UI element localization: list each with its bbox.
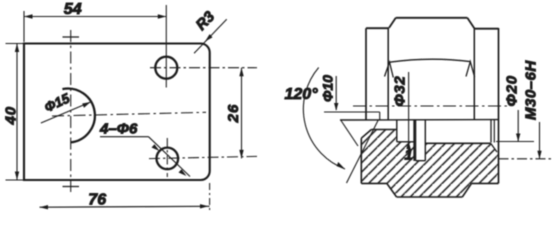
hex chamfer slant left	[389, 18, 396, 28]
main horizontal centerline	[353, 105, 510, 107]
phi20 extension line	[496, 141, 534, 143]
boss hole bottom	[416, 160, 426, 162]
housing bottom slant left	[387, 183, 397, 197]
dimension 40 line	[16, 44, 18, 181]
phi10 arrow	[334, 103, 338, 111]
shank left edge	[396, 120, 398, 142]
phi20 dimension line	[517, 110, 519, 141]
svg-text:Φ20: Φ20	[504, 75, 521, 106]
phi15 centerline top tick	[63, 36, 80, 38]
housing chamfer corner left	[361, 130, 371, 139]
R3 leader line	[194, 19, 227, 53]
shank bottom left segment	[397, 141, 416, 143]
svg-text:M30–6H: M30–6H	[523, 60, 540, 120]
M30-6H arrow	[537, 151, 541, 159]
shank right edge	[490, 120, 492, 143]
4-phi6 leader arrowhead at hole	[152, 144, 160, 151]
left view plate outline	[24, 44, 210, 181]
housing bottom ledge left	[361, 182, 387, 184]
housing top surface left	[371, 129, 396, 131]
hex shoulder top right	[475, 28, 499, 30]
chamfer note 1 leader stem	[408, 145, 410, 152]
shank bottom right segment (thread line)	[425, 142, 490, 144]
4-phi6 leader second arrowhead	[179, 169, 187, 176]
hex corner edge right	[473, 29, 475, 120]
phi20 arrow	[516, 134, 520, 142]
120deg angle side line A	[341, 121, 358, 147]
4-phi6 underline	[100, 136, 149, 138]
housing bottom edge	[397, 196, 463, 198]
phi32 dimension line	[408, 72, 410, 148]
boss hole right edge	[424, 120, 426, 161]
thread end inner vertical	[493, 120, 495, 143]
phi15 leader arrow	[82, 102, 90, 108]
phi10 hole end wall	[379, 112, 381, 120]
hex shoulder top left	[366, 27, 389, 29]
dimension 76 extension right (dash-dot)	[209, 183, 211, 211]
dimension 76 arrows	[40, 204, 209, 209]
svg-text:Φ10: Φ10	[320, 75, 336, 102]
120deg angle side line B	[347, 120, 379, 184]
svg-text:4–Φ6: 4–Φ6	[99, 121, 138, 138]
phi32 arrows	[407, 141, 411, 149]
svg-text:Φ32: Φ32	[392, 76, 409, 107]
hex chamfer slant right	[467, 18, 475, 29]
housing section hatch	[361, 130, 498, 198]
top edge extension line (left)	[6, 43, 25, 45]
hex corner edge left	[387, 28, 389, 120]
svg-text:R3: R3	[193, 8, 219, 34]
phi10 dimension line	[335, 76, 337, 110]
hole H1 top (phi6)	[155, 57, 177, 79]
120deg arc end arrow	[337, 162, 345, 169]
svg-text:26: 26	[225, 104, 242, 124]
dimension 26 line	[241, 68, 243, 159]
thread end chamfer slant	[491, 143, 497, 152]
phi10 hole upper extension line	[324, 111, 380, 113]
dimension 76 line	[40, 205, 210, 208]
flange bottom (washer face)	[340, 119, 499, 121]
dimension 40 arrows	[15, 44, 19, 181]
dimension 54 line	[24, 16, 166, 18]
hole H2 bottom (phi6)	[157, 148, 179, 170]
hex chamfer arc across face	[390, 59, 471, 62]
dimension 54 arrows	[24, 14, 166, 18]
M30-6H extension line (dash-dot)	[499, 158, 554, 160]
bottom edge extension line (left)	[6, 179, 25, 181]
dimension 26 arrows	[239, 68, 243, 159]
dimension 54 extension line left	[23, 11, 25, 42]
svg-text:40: 40	[2, 106, 19, 126]
hole H1 horizontal centerline / 26 extension	[150, 67, 257, 69]
chamfer note 1 leader arrow	[406, 142, 410, 149]
hex corner chamfer V left	[385, 62, 394, 77]
svg-text:54: 54	[64, 1, 82, 18]
right silhouette edge (hex + housing)	[498, 28, 500, 183]
svg-text:120°: 120°	[285, 86, 319, 103]
svg-text:1: 1	[405, 147, 413, 164]
M30-6H dimension line	[539, 122, 541, 159]
hex head top edge	[396, 17, 468, 19]
housing bottom ledge right	[472, 182, 499, 184]
boss hole left edge	[413, 120, 416, 161]
hole H1 vertical centerline / 54 extension	[165, 5, 167, 88]
hex left silhouette edge	[365, 28, 367, 120]
hole H2 horizontal centerline / 26 extension	[149, 156, 257, 158]
phi15 leader line	[41, 102, 91, 123]
phi15 centerline bottom tick	[63, 186, 80, 188]
4-phi6 leader line through bottom hole	[149, 137, 191, 177]
phi15 vertical centerline	[70, 30, 72, 192]
120deg dimension arc	[303, 68, 345, 170]
R3 leader arrowhead	[205, 34, 213, 41]
hole H2 vertical centerline	[166, 138, 168, 177]
housing bottom slant right	[462, 183, 471, 197]
big hole phi15 arc	[62, 89, 94, 143]
svg-text:76: 76	[88, 191, 106, 208]
phi15 horizontal centerline	[52, 112, 206, 116]
housing left edge	[360, 138, 362, 183]
hex corner chamfer V right	[466, 62, 475, 77]
